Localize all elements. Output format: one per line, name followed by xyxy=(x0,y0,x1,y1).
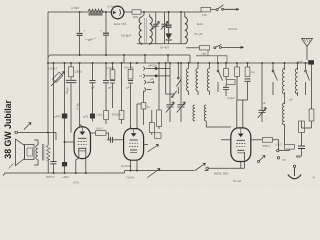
node B4 xyxy=(79,62,81,64)
lamp La (ballast tube) xyxy=(111,6,124,19)
node B11 xyxy=(158,62,160,64)
wire top bus right xyxy=(141,9,237,12)
wire V2 top lead1 xyxy=(130,126,132,129)
connector TA jack1 xyxy=(143,63,170,70)
node V2 leg2 xyxy=(136,170,138,172)
wire rail A stubs xyxy=(48,55,168,63)
wire bottom bus end tick xyxy=(3,173,5,176)
node B2 xyxy=(64,62,66,64)
wire T3 leads xyxy=(34,133,48,174)
node B23 xyxy=(272,62,274,64)
node B5 xyxy=(92,62,94,64)
wire V3 top leads xyxy=(237,100,248,129)
inductor L7 xyxy=(282,63,284,144)
node B17 xyxy=(197,62,199,64)
capacitor C11 1uF xyxy=(141,91,150,126)
resistor R3 745 xyxy=(201,7,211,16)
wire V1 anode out xyxy=(91,132,96,134)
transformer T3 core xyxy=(42,144,44,161)
trimmer capacitor C13 xyxy=(177,63,185,122)
node B26 xyxy=(305,62,307,64)
transformer T1 winding b lead xyxy=(142,14,150,45)
wire V2 screen xyxy=(137,104,141,129)
node A3 xyxy=(123,54,125,56)
wire V3 bottom loop xyxy=(209,152,245,168)
resistor R11 xyxy=(245,63,255,100)
wire bottom bus xyxy=(5,171,195,173)
terminal V3 bottom xyxy=(206,167,208,169)
capacitor C10 electrolytic xyxy=(83,114,95,122)
node B19 xyxy=(217,62,219,64)
trimmer capacitor C3 xyxy=(152,12,159,44)
tube V1 UF11 xyxy=(74,127,90,159)
node B7 xyxy=(112,62,114,64)
node J3 xyxy=(143,11,145,13)
wire V1 grid xyxy=(65,141,75,143)
switch S3 xyxy=(217,63,222,92)
transformer T1 winding b body xyxy=(150,17,153,44)
node A1 xyxy=(79,54,81,56)
diode Gl xyxy=(165,33,172,43)
transformer T3 primary xyxy=(36,145,38,160)
node B24 xyxy=(284,62,286,64)
inductor L2 xyxy=(186,63,188,95)
arrow JH xyxy=(258,156,286,163)
wire R15 right xyxy=(273,140,279,150)
wire top bus mid xyxy=(124,11,132,13)
node B25 xyxy=(297,62,299,64)
node A2 xyxy=(105,54,107,56)
node B27 xyxy=(311,62,313,64)
terminal jack2 xyxy=(277,157,279,159)
terminal jack1 xyxy=(277,149,279,151)
switch S9 xyxy=(172,91,177,98)
node B1 xyxy=(53,62,55,64)
node V1 leg1 xyxy=(75,172,77,174)
wire R13 to C15 xyxy=(106,133,110,140)
capacitor C16 5uF xyxy=(295,146,305,159)
switch S5 xyxy=(305,63,310,95)
wire B+ to V1 anode xyxy=(79,63,81,127)
trimmer capacitor C14 xyxy=(258,63,266,122)
resistor R7 UW1 xyxy=(107,63,116,108)
wire V1 anode top xyxy=(80,124,83,127)
node B18 xyxy=(208,62,210,64)
capacitor C15 xyxy=(110,137,112,143)
resistor R14 xyxy=(149,110,161,138)
capacitor C6 electrolytic xyxy=(62,63,67,162)
resistor R9 UW40 xyxy=(124,63,134,129)
label 100uF callout xyxy=(85,38,96,41)
switch S2 xyxy=(214,44,222,49)
capacitor C17 xyxy=(46,158,57,164)
capacitor C5 xyxy=(166,12,172,33)
node left-railA xyxy=(47,62,49,64)
resistor R16 UKG2 xyxy=(276,142,295,149)
wire V3 anode out xyxy=(251,139,262,141)
resistor R18 xyxy=(235,63,240,100)
resistor R13 UKG xyxy=(96,127,106,136)
node V1 leg2 xyxy=(85,172,87,174)
switch S6 arrow xyxy=(148,169,161,178)
node B12 xyxy=(165,62,167,64)
wire V3 cathode leg xyxy=(240,162,242,169)
transformer T1 winding a body xyxy=(139,17,142,44)
resistor R15 SPK xyxy=(262,138,272,149)
node B3 xyxy=(70,62,72,64)
node B20 xyxy=(225,62,227,64)
node J5 xyxy=(180,11,182,13)
speaker LS cone xyxy=(16,139,25,166)
resistor R12 xyxy=(309,63,314,128)
node J2 xyxy=(105,11,107,13)
node B13 xyxy=(169,62,171,64)
trimmer capacitor C4 xyxy=(161,12,168,44)
arrow hum xyxy=(24,123,31,130)
wire rail A xyxy=(50,54,190,56)
wire jack xyxy=(279,149,289,151)
connector TA jack4 xyxy=(144,88,151,92)
inductor L3 xyxy=(196,63,198,95)
connector TA jack2 xyxy=(140,74,171,78)
switch S8 xyxy=(177,63,182,94)
capacitor C7 electrolytic xyxy=(62,162,67,173)
inductor L1 xyxy=(157,63,162,129)
switch S4 xyxy=(272,63,277,95)
node B8 xyxy=(121,62,123,64)
wire osc section xyxy=(166,63,174,94)
wire T1 bottom xyxy=(137,43,186,45)
resistor R5 825 xyxy=(68,63,82,77)
paper grain overlay xyxy=(0,0,1,1)
resistor R17 xyxy=(299,121,305,145)
node J6 xyxy=(47,132,49,134)
transformer T3 secondary xyxy=(47,145,50,160)
node J4 xyxy=(168,11,170,13)
node A4 xyxy=(144,54,146,56)
inductor L5 xyxy=(193,105,195,121)
resistor R10 xyxy=(223,63,235,96)
inductor L8 xyxy=(295,63,297,96)
switch S7 mains xyxy=(195,163,209,170)
node B15 xyxy=(180,62,182,64)
capacitor C2 electrolytic xyxy=(100,12,109,55)
terminal antenna xyxy=(308,60,314,64)
transformer T2 winding xyxy=(181,12,187,44)
connector TA jack3 xyxy=(144,77,154,84)
resistor R1 xyxy=(88,9,103,16)
speaker LS body xyxy=(25,145,35,160)
wire rail A end xyxy=(189,55,191,63)
node B16 xyxy=(188,62,190,64)
resistor R6 chain xyxy=(97,63,110,124)
resistor R2 800 xyxy=(132,10,141,14)
wire left rail xyxy=(47,12,49,133)
wire V1 cathode legs xyxy=(76,148,86,173)
terminal P1 xyxy=(15,131,18,134)
capacitor C8 xyxy=(65,77,77,133)
node V2 leg1 xyxy=(130,170,132,172)
node bottom J8 xyxy=(53,172,55,174)
switch S1 xyxy=(216,5,224,11)
trimmer capacitor C12 xyxy=(166,63,174,122)
node B6 xyxy=(105,62,107,64)
tube V3 UCL output xyxy=(231,128,251,162)
ground xyxy=(288,165,301,179)
resistor R4 750 xyxy=(200,46,210,56)
transformer T1 winding a lead xyxy=(142,12,144,17)
pot P volume UH/17 xyxy=(51,63,65,174)
wire right bottom xyxy=(302,127,312,129)
node V1 grid xyxy=(64,141,66,143)
wire mains N xyxy=(221,46,243,48)
node B21 xyxy=(247,62,249,64)
pot arrow V2 xyxy=(148,145,159,153)
antenna A xyxy=(302,39,313,61)
transformer T1 core xyxy=(145,18,147,43)
capacitor C1 electrolytic xyxy=(77,12,86,55)
node J1 xyxy=(79,11,81,13)
wire switch stubs xyxy=(196,50,227,63)
wire V2 out xyxy=(144,144,148,146)
wire V2 legs xyxy=(131,160,138,171)
node B26 xyxy=(236,62,238,64)
inductor L4 xyxy=(207,63,209,95)
mark below title xyxy=(9,164,14,169)
wire C15 to V2 grid xyxy=(113,139,124,141)
wire top bus left xyxy=(48,11,112,13)
resistor R8 DW23 xyxy=(112,63,124,124)
capacitor C9 xyxy=(90,63,96,114)
wire mains row2 lead xyxy=(186,47,200,49)
node B10 xyxy=(136,62,138,64)
node A5 xyxy=(167,54,169,56)
wire pickup xyxy=(18,133,57,141)
node B22 xyxy=(261,62,263,64)
node B14 xyxy=(177,62,179,64)
tube V2 UCL xyxy=(124,129,144,161)
wire V3 grid xyxy=(221,139,231,141)
wire rail B xyxy=(48,62,314,64)
node bottom J7 xyxy=(64,172,66,174)
node B9 xyxy=(130,62,132,64)
inductor L6 xyxy=(204,105,231,127)
wire mains L xyxy=(224,8,239,10)
